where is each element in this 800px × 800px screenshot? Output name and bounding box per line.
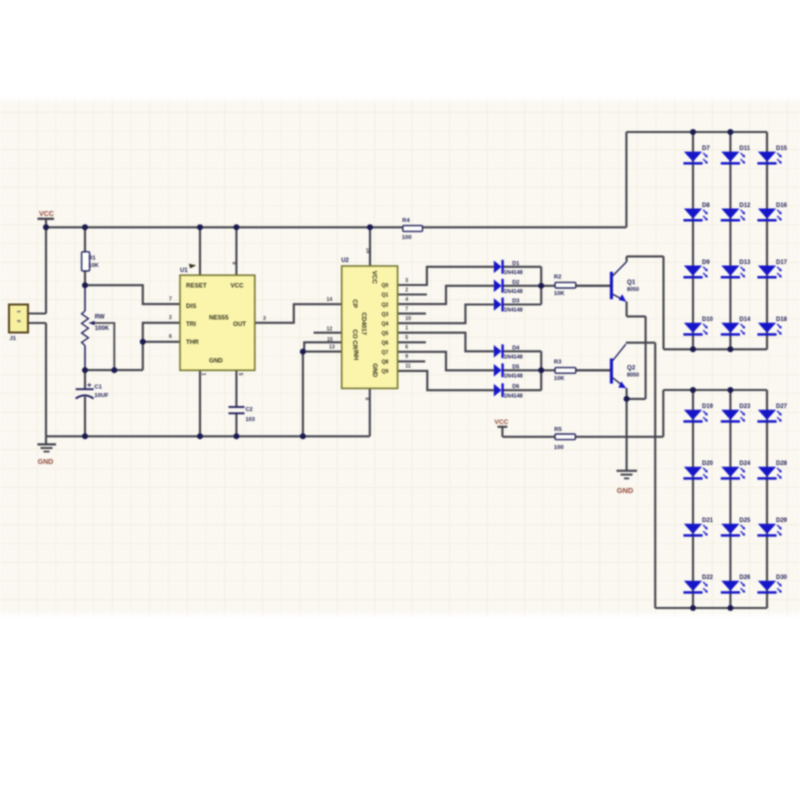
svg-text:100K: 100K [95, 326, 110, 332]
svg-text:12: 12 [327, 327, 333, 333]
svg-text:VCC: VCC [494, 419, 508, 426]
svg-text:R1: R1 [89, 255, 96, 261]
svg-text:CD4017: CD4017 [360, 312, 367, 335]
svg-text:D14: D14 [739, 317, 751, 323]
svg-text:5: 5 [237, 373, 243, 376]
svg-text:Q2: Q2 [627, 364, 636, 371]
svg-text:8: 8 [231, 262, 237, 265]
svg-text:1N4148: 1N4148 [504, 308, 523, 314]
svg-text:D9: D9 [702, 260, 710, 266]
svg-text:VCC: VCC [370, 271, 377, 285]
svg-text:D22: D22 [702, 575, 714, 581]
svg-text:Q2: Q2 [382, 302, 389, 308]
svg-text:VCC: VCC [231, 282, 245, 289]
svg-text:1: 1 [405, 326, 408, 332]
svg-text:OUT: OUT [233, 321, 246, 328]
svg-text:Q0: Q0 [382, 283, 389, 289]
svg-text:D25: D25 [739, 518, 751, 524]
svg-text:VCC: VCC [39, 211, 54, 218]
svg-text:Q9: Q9 [382, 369, 389, 375]
svg-text:CR: CR [351, 340, 358, 349]
svg-text:2: 2 [405, 287, 408, 293]
svg-text:1N4148: 1N4148 [504, 270, 523, 276]
svg-text:9: 9 [405, 354, 408, 360]
svg-text:2: 2 [16, 320, 21, 323]
svg-text:Q7: Q7 [382, 350, 389, 356]
svg-text:D7: D7 [702, 146, 710, 152]
svg-text:100: 100 [554, 445, 564, 451]
svg-text:D17: D17 [776, 260, 788, 266]
svg-text:6: 6 [405, 345, 408, 351]
svg-text:1N4148: 1N4148 [504, 393, 523, 399]
svg-text:D19: D19 [702, 404, 714, 410]
svg-text:10: 10 [405, 316, 411, 322]
svg-text:10K: 10K [554, 291, 565, 297]
svg-text:Q1: Q1 [627, 279, 636, 286]
svg-text:Q4: Q4 [382, 321, 389, 327]
svg-text:5: 5 [405, 335, 408, 341]
svg-text:D24: D24 [739, 461, 751, 467]
svg-text:D2: D2 [512, 280, 519, 286]
svg-text:Q5: Q5 [382, 331, 389, 337]
svg-text:D13: D13 [739, 260, 751, 266]
svg-text:D16: D16 [776, 203, 788, 209]
svg-text:6: 6 [169, 334, 172, 340]
svg-text:R3: R3 [554, 360, 562, 366]
svg-text:C2: C2 [246, 407, 253, 413]
svg-text:Q6: Q6 [382, 341, 389, 347]
svg-text:C1: C1 [94, 385, 102, 391]
svg-text:1N4148: 1N4148 [504, 289, 523, 295]
svg-text:100: 100 [402, 235, 412, 241]
svg-text:14: 14 [327, 297, 333, 303]
svg-text:D23: D23 [739, 404, 751, 410]
svg-text:D15: D15 [776, 146, 788, 152]
svg-text:8: 8 [364, 397, 370, 400]
svg-text:7: 7 [405, 306, 408, 312]
svg-text:10K: 10K [89, 263, 99, 269]
svg-text:D10: D10 [702, 317, 714, 323]
svg-text:U1: U1 [180, 268, 188, 274]
svg-text:D28: D28 [776, 461, 788, 467]
svg-text:15: 15 [327, 337, 333, 343]
svg-text:RW: RW [95, 314, 105, 320]
svg-text:D18: D18 [776, 317, 788, 323]
svg-text:GND: GND [371, 363, 378, 377]
svg-text:D20: D20 [702, 461, 714, 467]
svg-text:1: 1 [200, 373, 206, 376]
svg-text:Q8: Q8 [382, 360, 389, 366]
svg-text:2: 2 [169, 315, 172, 321]
svg-text:7: 7 [169, 296, 172, 302]
svg-text:NE555: NE555 [209, 315, 229, 322]
svg-text:10UF: 10UF [94, 393, 109, 399]
svg-text:D3: D3 [512, 299, 519, 305]
svg-text:11: 11 [405, 364, 411, 370]
svg-text:1N4148: 1N4148 [504, 374, 523, 380]
svg-text:D12: D12 [739, 203, 751, 209]
svg-text:D29: D29 [776, 518, 788, 524]
svg-text:GND: GND [38, 459, 54, 466]
svg-text:D26: D26 [739, 575, 751, 581]
svg-text:GND: GND [209, 358, 223, 365]
svg-text:3: 3 [405, 278, 408, 284]
svg-text:R4: R4 [402, 218, 410, 224]
svg-text:Q1: Q1 [382, 293, 389, 299]
svg-text:GND: GND [617, 486, 634, 495]
svg-text:D30: D30 [776, 575, 788, 581]
svg-text:8050: 8050 [627, 287, 639, 293]
svg-text:103: 103 [246, 417, 255, 423]
svg-text:D5: D5 [512, 364, 519, 370]
svg-text:TRI: TRI [186, 321, 196, 328]
svg-text:10K: 10K [554, 376, 565, 382]
svg-text:R2: R2 [554, 274, 561, 280]
svg-text:D11: D11 [739, 146, 750, 152]
svg-text:D6: D6 [512, 384, 519, 390]
svg-text:D21: D21 [702, 518, 714, 524]
svg-text:DIS: DIS [186, 303, 196, 310]
svg-text:D27: D27 [776, 404, 788, 410]
svg-text:13: 13 [329, 345, 335, 351]
svg-text:INH: INH [352, 350, 359, 361]
svg-text:D1: D1 [512, 261, 519, 267]
svg-text:THR: THR [186, 339, 199, 346]
svg-text:8050: 8050 [627, 373, 639, 379]
svg-text:CO: CO [351, 329, 358, 338]
svg-text:CP: CP [351, 299, 358, 308]
svg-text:R5: R5 [554, 427, 562, 433]
svg-text:D8: D8 [702, 203, 710, 209]
svg-text:16: 16 [365, 248, 371, 254]
svg-text:RESET: RESET [186, 282, 207, 289]
svg-text:J1: J1 [10, 336, 17, 342]
svg-text:D4: D4 [512, 345, 520, 351]
svg-text:U2: U2 [341, 258, 349, 264]
svg-text:1: 1 [16, 310, 21, 313]
svg-text:3: 3 [263, 316, 266, 322]
svg-text:1N4148: 1N4148 [504, 355, 523, 361]
svg-text:4: 4 [405, 297, 408, 303]
svg-text:Q3: Q3 [382, 312, 389, 318]
